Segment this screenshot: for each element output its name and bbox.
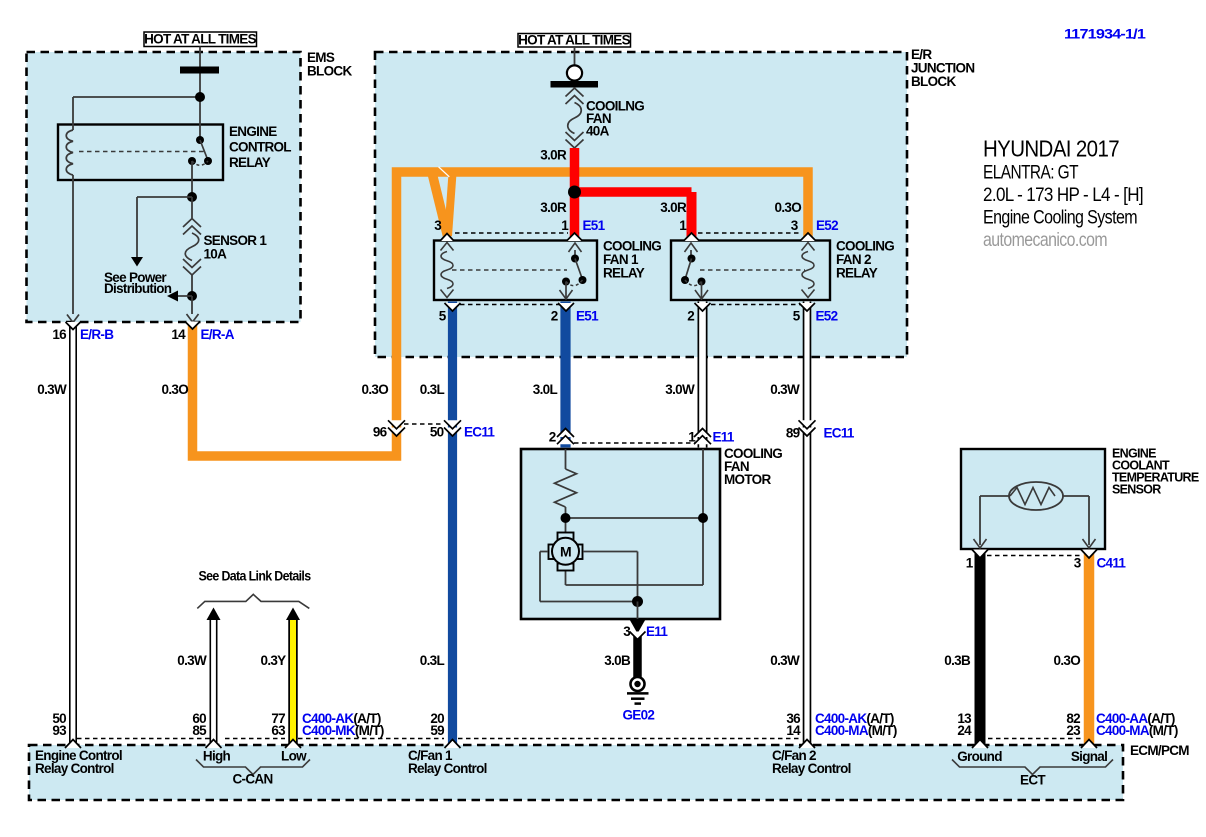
svg-text:RELAY: RELAY (229, 155, 271, 170)
svg-text:2: 2 (687, 309, 694, 324)
svg-text:GE02: GE02 (623, 708, 655, 723)
svg-text:Low: Low (281, 749, 307, 764)
svg-text:HOT AT ALL TIMES: HOT AT ALL TIMES (518, 33, 630, 48)
svg-text:ELANTRA: GT: ELANTRA: GT (983, 163, 1079, 184)
svg-text:14: 14 (171, 327, 186, 342)
svg-text:M: M (560, 544, 571, 560)
svg-text:0.3O: 0.3O (1054, 653, 1081, 668)
svg-text:10A: 10A (204, 247, 228, 262)
svg-text:1: 1 (679, 218, 687, 233)
svg-text:BLOCK: BLOCK (911, 74, 956, 89)
svg-text:automecanico.com: automecanico.com (983, 229, 1107, 251)
svg-text:3: 3 (623, 624, 631, 639)
svg-text:EC11: EC11 (824, 426, 855, 441)
svg-text:0.3L: 0.3L (420, 653, 445, 668)
svg-text:BLOCK: BLOCK (307, 64, 352, 79)
svg-text:5: 5 (793, 309, 801, 324)
svg-text:3.0R: 3.0R (540, 148, 567, 163)
svg-text:EC11: EC11 (464, 425, 495, 440)
svg-text:RELAY: RELAY (836, 266, 878, 281)
svg-text:E/R-A: E/R-A (201, 327, 235, 342)
svg-text:50: 50 (430, 425, 444, 440)
svg-text:1: 1 (966, 556, 974, 571)
svg-text:0.3L: 0.3L (420, 382, 445, 397)
svg-text:63: 63 (271, 723, 286, 738)
svg-text:0.3O: 0.3O (162, 382, 189, 397)
svg-text:C400-MK(M/T): C400-MK(M/T) (302, 723, 384, 738)
svg-text:96: 96 (373, 425, 388, 440)
svg-text:3.0L: 3.0L (533, 382, 558, 397)
svg-text:0.3O: 0.3O (362, 382, 389, 397)
svg-text:MOTOR: MOTOR (724, 472, 771, 487)
svg-text:0.3W: 0.3W (37, 382, 67, 397)
svg-text:HOT AT ALL TIMES: HOT AT ALL TIMES (144, 32, 256, 47)
svg-text:C-CAN: C-CAN (233, 772, 273, 787)
svg-text:E51: E51 (576, 309, 599, 324)
svg-text:Engine Cooling System: Engine Cooling System (983, 208, 1137, 229)
svg-text:E11: E11 (713, 430, 735, 445)
svg-text:ECM/PCM: ECM/PCM (1130, 743, 1189, 758)
svg-text:3.0B: 3.0B (604, 653, 631, 668)
svg-text:85: 85 (192, 723, 207, 738)
svg-text:Distribution: Distribution (104, 281, 172, 296)
svg-text:2: 2 (551, 309, 558, 324)
svg-text:14: 14 (786, 723, 801, 738)
svg-text:Relay Control: Relay Control (772, 761, 851, 776)
svg-text:89: 89 (786, 426, 800, 441)
svg-text:High: High (203, 749, 231, 764)
svg-text:1171934-1/1: 1171934-1/1 (1064, 26, 1146, 42)
svg-text:3: 3 (1074, 556, 1082, 571)
svg-text:E51: E51 (583, 218, 606, 233)
svg-text:SENSOR: SENSOR (1112, 483, 1161, 497)
svg-text:23: 23 (1066, 723, 1081, 738)
svg-text:CONTROL: CONTROL (229, 140, 291, 155)
svg-text:59: 59 (430, 723, 444, 738)
svg-text:E11: E11 (646, 624, 668, 639)
svg-text:24: 24 (957, 723, 972, 738)
svg-text:40A: 40A (586, 124, 610, 139)
svg-text:0.3Y: 0.3Y (261, 653, 287, 668)
svg-text:0.3W: 0.3W (177, 653, 207, 668)
svg-text:5: 5 (439, 309, 447, 324)
svg-text:Relay Control: Relay Control (35, 761, 114, 776)
svg-text:3.0R: 3.0R (540, 200, 567, 215)
svg-text:HYUNDAI 2017: HYUNDAI 2017 (983, 136, 1119, 162)
svg-text:2.0L - 173 HP - L4 - [H]: 2.0L - 173 HP - L4 - [H] (983, 185, 1143, 206)
svg-text:ECT: ECT (1020, 773, 1046, 788)
svg-text:See Data Link Details: See Data Link Details (199, 569, 311, 584)
svg-text:Ground: Ground (957, 749, 1002, 764)
svg-text:2: 2 (549, 430, 556, 445)
svg-text:1: 1 (688, 430, 696, 445)
svg-text:3.0W: 3.0W (665, 382, 695, 397)
svg-text:0.3W: 0.3W (770, 382, 800, 397)
svg-text:3: 3 (791, 218, 799, 233)
svg-text:C411: C411 (1097, 556, 1127, 571)
svg-text:93: 93 (52, 723, 67, 738)
svg-text:RELAY: RELAY (603, 266, 645, 281)
svg-text:1: 1 (561, 218, 569, 233)
svg-text:16: 16 (52, 327, 67, 342)
svg-text:C400-MA(M/T): C400-MA(M/T) (815, 723, 897, 738)
svg-text:ENGINE: ENGINE (229, 124, 277, 139)
svg-text:0.3O: 0.3O (775, 200, 802, 215)
svg-text:C400-MA(M/T): C400-MA(M/T) (1096, 723, 1178, 738)
svg-text:Relay Control: Relay Control (408, 761, 487, 776)
svg-text:3.0R: 3.0R (660, 200, 687, 215)
svg-text:E/R-B: E/R-B (80, 327, 114, 342)
svg-text:Signal: Signal (1071, 749, 1107, 764)
svg-text:E52: E52 (816, 309, 838, 324)
svg-text:E52: E52 (816, 218, 838, 233)
svg-text:0.3W: 0.3W (770, 653, 800, 668)
svg-text:0.3B: 0.3B (944, 653, 971, 668)
svg-text:3: 3 (434, 218, 442, 233)
